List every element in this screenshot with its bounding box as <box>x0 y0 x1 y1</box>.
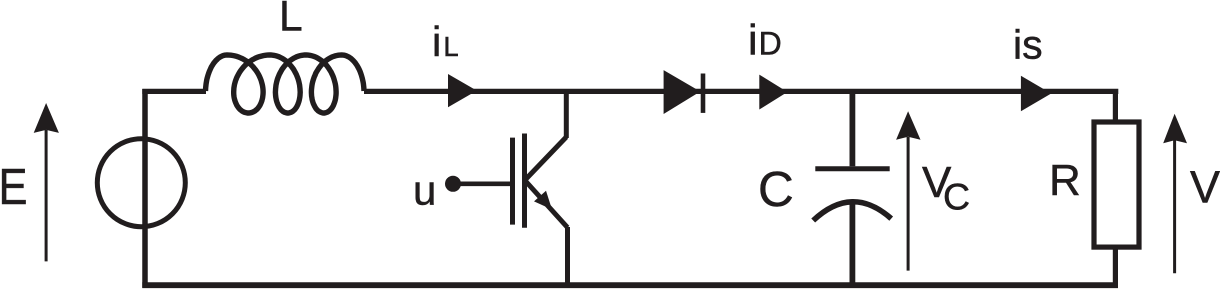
wire bottom (return rail) <box>142 282 1118 288</box>
current arrow iL <box>448 74 477 107</box>
arrow E (source voltage direction) <box>34 103 59 261</box>
arrow VC (capacitor voltage direction) <box>896 111 920 270</box>
svg-text:iD: iD <box>748 17 782 65</box>
svg-text:V: V <box>1190 162 1220 213</box>
svg-text:R: R <box>1049 156 1081 205</box>
svg-text:iL: iL <box>432 18 459 65</box>
wire capacitor top lead <box>850 91 856 166</box>
wire emitter (transistor bottom lead) <box>565 227 570 285</box>
wire resistor top stub <box>1113 91 1118 122</box>
wire resistor bottom stub <box>1113 247 1118 285</box>
wire left (source branch) <box>142 89 148 288</box>
svg-text:VC: VC <box>922 158 970 217</box>
current arrow iD <box>759 75 787 110</box>
voltage source E <box>97 139 185 227</box>
node u (gate terminal dot) <box>445 176 461 192</box>
inductor L <box>206 55 365 113</box>
wire collector (transistor top lead) <box>564 91 569 138</box>
resistor R <box>1094 122 1139 247</box>
svg-text:is: is <box>1013 22 1043 68</box>
wire top left (source to inductor) <box>142 89 206 94</box>
transistor Q (IGBT) <box>513 134 568 228</box>
current arrow is <box>1021 76 1051 112</box>
wire capacitor bottom lead <box>850 202 856 286</box>
wire top (inductor to transistor, diode, capacitor, resistor) <box>364 89 1118 94</box>
diode D <box>664 70 703 114</box>
wire gate <box>453 182 510 187</box>
capacitor C <box>813 169 891 221</box>
svg-text:C: C <box>758 162 794 217</box>
svg-text:L: L <box>279 0 303 41</box>
arrow V (output voltage direction) <box>1163 114 1187 274</box>
svg-text:u: u <box>413 167 436 214</box>
svg-text:E: E <box>0 158 28 215</box>
